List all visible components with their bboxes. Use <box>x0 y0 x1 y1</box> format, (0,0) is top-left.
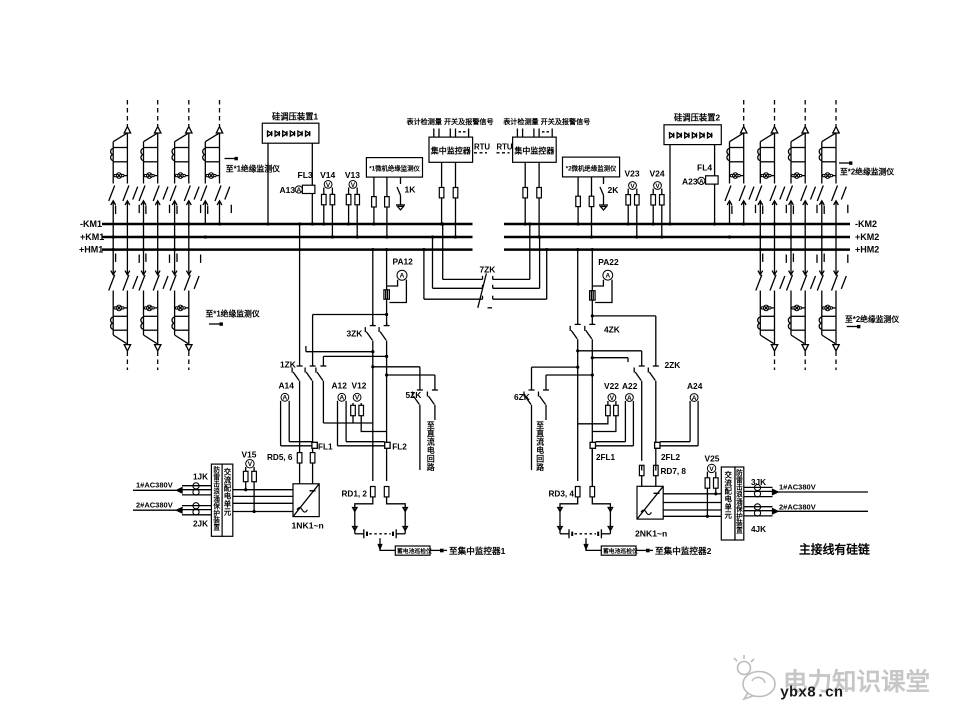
svg-text:2ZK: 2ZK <box>665 360 681 370</box>
svg-text:表计检测量 开关及报警信号: 表计检测量 开关及报警信号 <box>502 117 590 126</box>
svg-text:主接线有硅链: 主接线有硅链 <box>799 543 870 557</box>
svg-text:V: V <box>355 395 360 402</box>
svg-text:+HM1: +HM1 <box>79 245 103 255</box>
svg-text:保: 保 <box>735 504 743 513</box>
svg-text:V23: V23 <box>625 169 640 179</box>
svg-text:7ZK: 7ZK <box>480 265 496 275</box>
svg-text:2FL1: 2FL1 <box>596 453 616 462</box>
svg-text:PA22: PA22 <box>598 257 619 267</box>
svg-text:V15: V15 <box>242 450 257 460</box>
svg-text:2#AC380V: 2#AC380V <box>779 502 816 511</box>
svg-text:RD3, 4: RD3, 4 <box>549 490 575 499</box>
svg-text:FL2: FL2 <box>392 443 407 452</box>
svg-text:V: V <box>610 395 615 402</box>
svg-text:蓄电池巡检仪: 蓄电池巡检仪 <box>603 547 638 555</box>
svg-text:至*2绝缘监测仪: 至*2绝缘监测仪 <box>840 167 894 177</box>
svg-text:2#AC380V: 2#AC380V <box>136 501 173 510</box>
svg-text:V12: V12 <box>352 380 367 390</box>
svg-text:击: 击 <box>736 483 743 492</box>
svg-text:V: V <box>709 466 714 473</box>
svg-text:1K: 1K <box>405 185 417 195</box>
svg-text:V: V <box>630 183 635 190</box>
svg-text:2FL2: 2FL2 <box>661 453 681 462</box>
svg-text:A13: A13 <box>280 185 296 195</box>
svg-text:A: A <box>296 187 301 194</box>
svg-text:至*1绝缘监测仪: 至*1绝缘监测仪 <box>206 309 260 319</box>
svg-text:集中监控器: 集中监控器 <box>430 146 472 156</box>
svg-text:A: A <box>400 273 405 280</box>
svg-text:A24: A24 <box>687 381 703 391</box>
svg-text:A12: A12 <box>332 380 348 390</box>
svg-text:V22: V22 <box>604 381 619 391</box>
svg-text:+KM1: +KM1 <box>80 232 104 242</box>
svg-text:1#AC380V: 1#AC380V <box>136 481 173 490</box>
svg-text:3ZK: 3ZK <box>347 329 363 339</box>
svg-text:装: 装 <box>212 516 220 525</box>
svg-text:表计检测量 开关及报警信号: 表计检测量 开关及报警信号 <box>406 117 494 126</box>
svg-text:*2微机绝缘监测仪: *2微机绝缘监测仪 <box>566 164 617 173</box>
svg-text:至*1绝缘监测仪: 至*1绝缘监测仪 <box>226 163 280 173</box>
svg-text:至*2绝缘监测仪: 至*2绝缘监测仪 <box>845 314 899 324</box>
svg-text:硅调压装置2: 硅调压装置2 <box>674 113 720 123</box>
svg-text:V: V <box>326 182 331 189</box>
svg-text:2K: 2K <box>608 185 620 195</box>
svg-text:置: 置 <box>213 523 220 532</box>
svg-text:V: V <box>655 183 660 190</box>
svg-text:V24: V24 <box>650 169 665 179</box>
svg-text:4ZK: 4ZK <box>604 325 620 335</box>
svg-text:V: V <box>351 182 356 189</box>
svg-text:A: A <box>283 395 288 402</box>
svg-text:RTU: RTU <box>497 143 513 152</box>
svg-text:A: A <box>605 273 610 280</box>
svg-text:2JK: 2JK <box>193 519 208 528</box>
svg-text:涌: 涌 <box>213 494 220 503</box>
svg-text:*1微机绝缘监测仪: *1微机绝缘监测仪 <box>369 164 420 173</box>
svg-text:FL1: FL1 <box>318 443 333 452</box>
svg-text:硅调压装置1: 硅调压装置1 <box>272 112 318 122</box>
svg-text:V14: V14 <box>320 170 335 180</box>
svg-text:V25: V25 <box>705 454 720 464</box>
svg-text:至集中监控器1: 至集中监控器1 <box>449 545 506 556</box>
svg-text:保: 保 <box>212 501 220 510</box>
svg-text:A: A <box>692 395 697 402</box>
svg-text:至集中监控器2: 至集中监控器2 <box>655 545 712 556</box>
svg-text:RD7, 8: RD7, 8 <box>661 467 687 476</box>
svg-text:防: 防 <box>213 465 220 474</box>
svg-text:RD5, 6: RD5, 6 <box>267 453 293 462</box>
svg-text:ybx8.cn: ybx8.cn <box>780 685 843 702</box>
svg-text:1NK1~n: 1NK1~n <box>292 521 324 531</box>
svg-text:雷: 雷 <box>213 472 220 481</box>
svg-text:A23: A23 <box>682 176 698 186</box>
svg-text:+HM2: +HM2 <box>855 245 879 255</box>
svg-text:浪: 浪 <box>736 490 743 499</box>
svg-text:3JK: 3JK <box>751 478 766 487</box>
svg-text:A: A <box>339 395 344 402</box>
svg-text:1#AC380V: 1#AC380V <box>779 483 816 492</box>
svg-text:雷: 雷 <box>736 475 743 484</box>
svg-text:RD1, 2: RD1, 2 <box>342 490 368 499</box>
svg-text:护: 护 <box>213 508 220 517</box>
svg-text:蓄电池巡检仪: 蓄电池巡检仪 <box>397 547 432 555</box>
svg-text:5ZK: 5ZK <box>406 390 422 400</box>
svg-text:元: 元 <box>724 510 732 519</box>
svg-text:4JK: 4JK <box>751 525 766 534</box>
svg-text:集中监控器: 集中监控器 <box>513 146 555 156</box>
svg-text:V: V <box>248 461 253 468</box>
svg-text:-KM1: -KM1 <box>80 219 102 229</box>
svg-text:路: 路 <box>536 462 544 472</box>
svg-text:+KM2: +KM2 <box>855 232 879 242</box>
svg-text:A: A <box>699 178 704 185</box>
svg-text:2NK1~n: 2NK1~n <box>635 529 667 539</box>
svg-text:A22: A22 <box>622 381 638 391</box>
svg-text:FL3: FL3 <box>298 170 313 180</box>
svg-text:装: 装 <box>735 519 743 528</box>
svg-text:涌: 涌 <box>736 497 743 506</box>
svg-text:PA12: PA12 <box>393 257 414 267</box>
svg-text:A: A <box>627 395 632 402</box>
svg-text:浪: 浪 <box>213 487 220 496</box>
svg-text:置: 置 <box>736 526 743 535</box>
svg-text:FL4: FL4 <box>697 162 712 172</box>
svg-text:防: 防 <box>736 468 743 477</box>
svg-text:V13: V13 <box>345 170 360 180</box>
svg-text:1ZK: 1ZK <box>280 360 296 370</box>
svg-text:路: 路 <box>427 462 435 472</box>
svg-text:A14: A14 <box>279 380 295 390</box>
svg-text:元: 元 <box>224 507 232 516</box>
svg-text:1JK: 1JK <box>193 472 208 481</box>
svg-text:击: 击 <box>213 480 220 489</box>
svg-text:-KM2: -KM2 <box>855 219 877 229</box>
svg-text:RTU: RTU <box>474 143 490 152</box>
svg-text:护: 护 <box>736 511 743 520</box>
